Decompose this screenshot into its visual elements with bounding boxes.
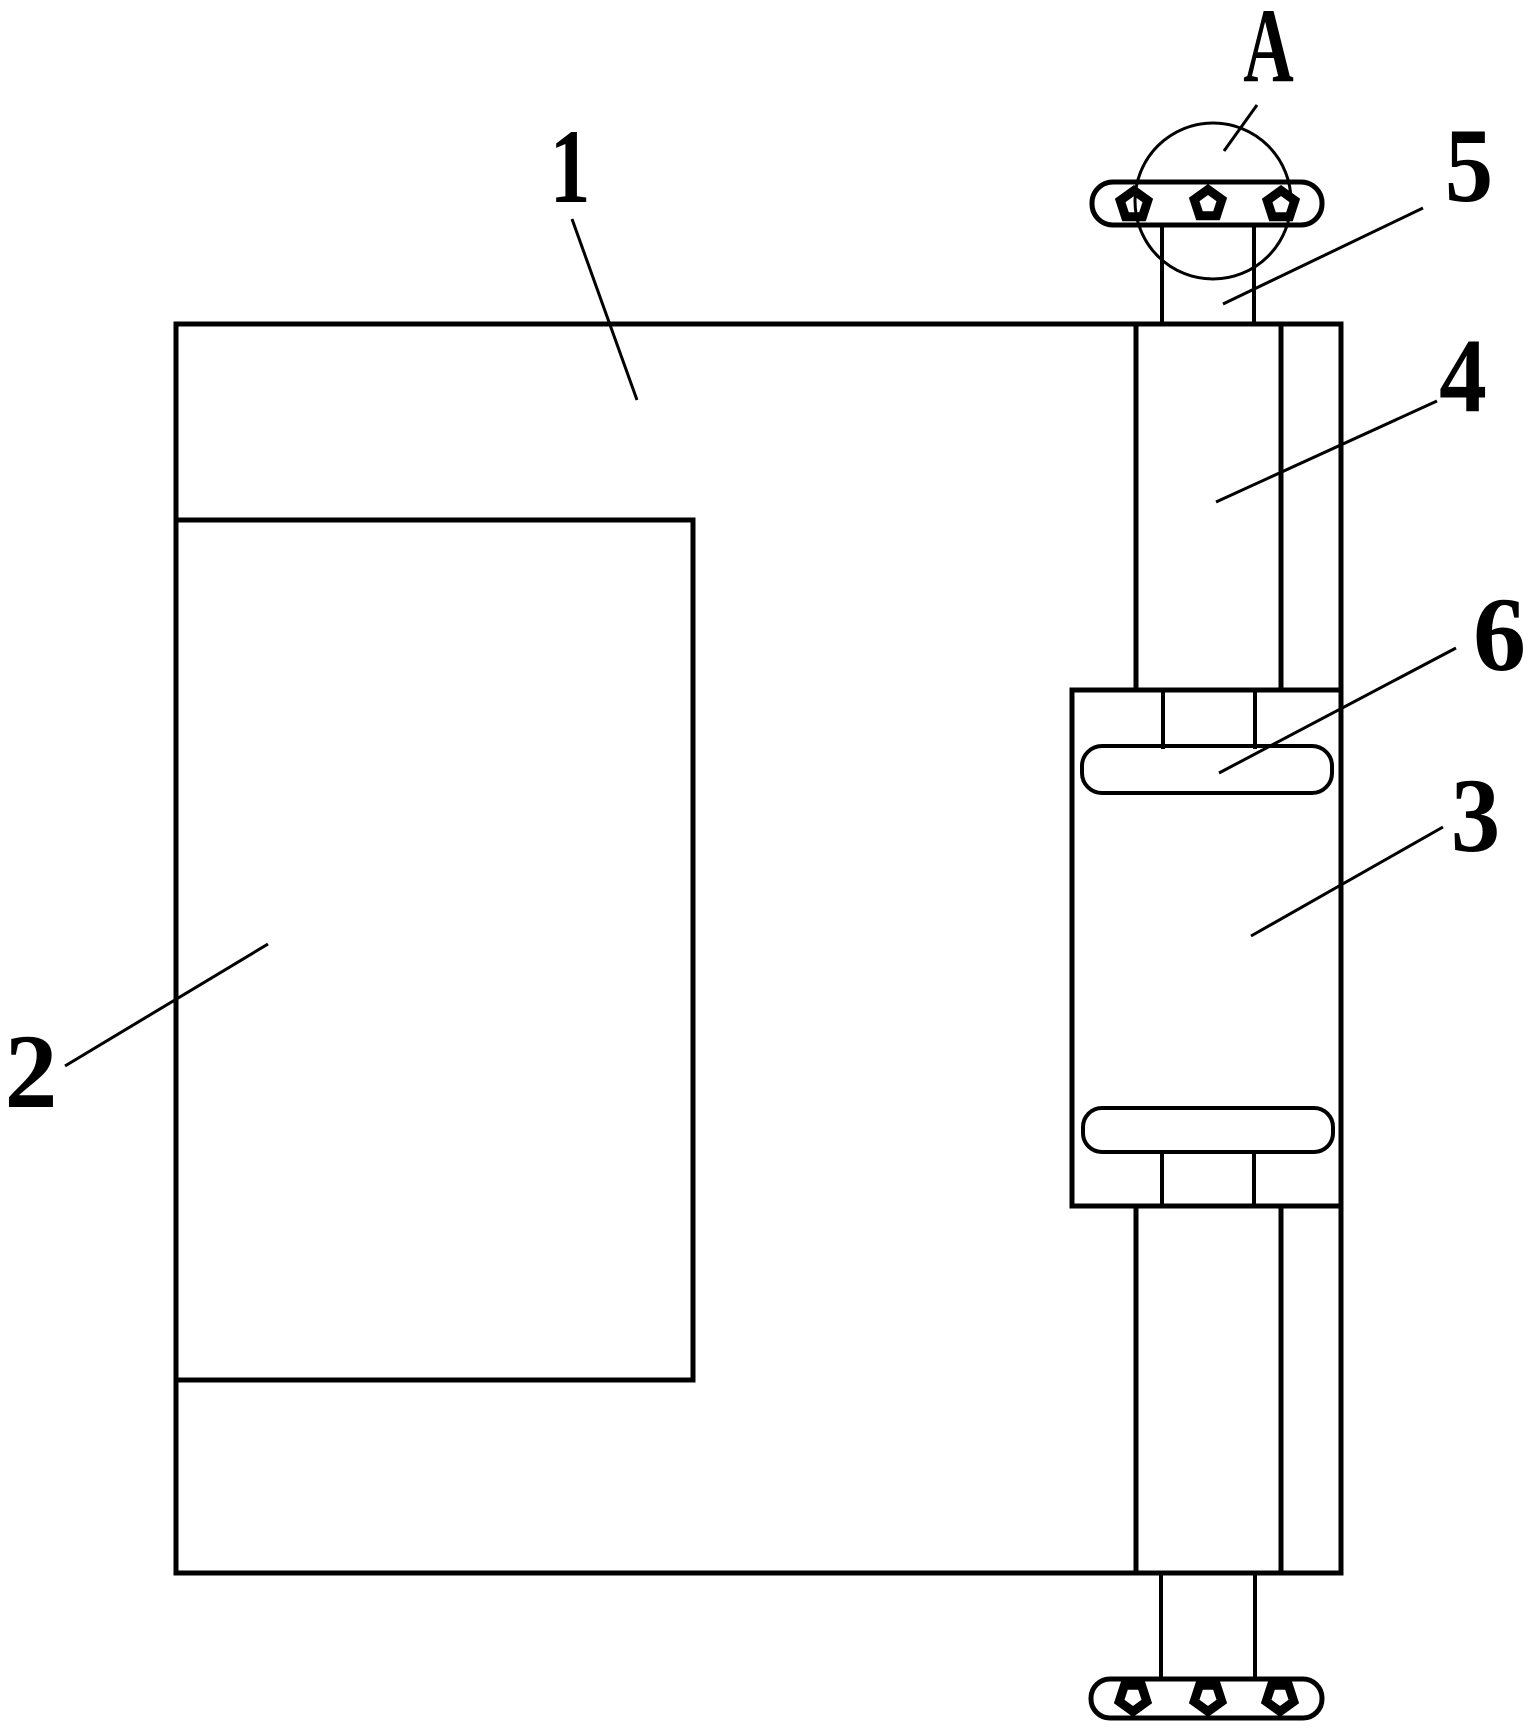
leader line 4: [1216, 401, 1437, 502]
svg-text:4: 4: [1439, 316, 1487, 434]
inner window 2: [176, 520, 693, 1380]
leader line A: [1224, 105, 1257, 151]
svg-text:2: 2: [5, 1013, 58, 1130]
slider block 3: [1072, 690, 1341, 1206]
svg-text:5: 5: [1445, 107, 1493, 224]
main plate 1: [176, 324, 1341, 1573]
upper damper bar 6: [1082, 746, 1332, 793]
bottom flange: [1091, 1679, 1322, 1718]
leader line 2: [65, 944, 268, 1066]
leader line 1: [572, 219, 637, 400]
lower stem: [1161, 1573, 1255, 1681]
upper rod stub: [1163, 690, 1255, 749]
leader line 5: [1223, 208, 1423, 304]
svg-text:1: 1: [550, 109, 591, 226]
svg-text:A: A: [1243, 0, 1294, 105]
detail circle A: [1135, 123, 1291, 279]
lower damper bar: [1083, 1108, 1333, 1152]
top bolt right: [1267, 191, 1295, 217]
leader line 3: [1251, 827, 1443, 936]
top flange 5: [1092, 182, 1322, 225]
bottom bolt right: [1266, 1685, 1294, 1711]
lower guide column: [1136, 1206, 1281, 1573]
svg-text:3: 3: [1451, 758, 1500, 875]
top bolt left: [1120, 191, 1148, 217]
top bolt middle: [1194, 190, 1222, 216]
leader line 6: [1219, 648, 1456, 773]
bottom bolt left: [1119, 1685, 1147, 1711]
lower rod stub: [1162, 1152, 1254, 1206]
upper guide column 4: [1136, 324, 1281, 690]
bottom bolt middle: [1194, 1685, 1222, 1711]
top stem: [1162, 225, 1254, 324]
svg-text:6: 6: [1473, 576, 1526, 693]
